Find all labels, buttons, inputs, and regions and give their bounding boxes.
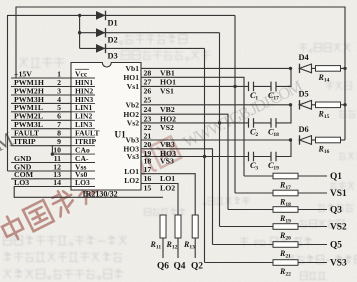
node +15V rail to R14 junction (343, 67, 346, 70)
label pin 20 VB3 (144, 140, 175, 149)
svg-text:HO2: HO2 (123, 110, 139, 119)
wire R20 to VS2 (298, 226, 327, 228)
wire pin 10 left (52, 146, 71, 155)
label inside name HO2 (123, 110, 139, 119)
svg-text:1: 1 (255, 96, 258, 102)
label pin 15 LO2 (144, 184, 176, 193)
wire D1 anode column (79, 15, 81, 48)
svg-text:15: 15 (324, 114, 330, 120)
wire D3 column down to R22 (204, 48, 206, 262)
label pin 1 inside name Vcc (72, 69, 96, 78)
svg-text:D6: D6 (299, 125, 309, 134)
svg-text:18: 18 (273, 132, 279, 138)
wire R17 to Q1 (298, 175, 327, 177)
label pin 16 LO1 (144, 174, 176, 183)
svg-text:16: 16 (144, 174, 152, 183)
svg-text:Vs1: Vs1 (127, 82, 139, 91)
node VB1-D4-C17 junction (289, 67, 292, 70)
resistor R13 (183, 215, 198, 251)
label pin 18 VS3 (144, 157, 174, 166)
wire ITRIP to pin10 riser (51, 146, 53, 154)
label inside name LO1 (124, 167, 139, 176)
capacitor C3 (249, 152, 259, 172)
wire LO3 pin14 wrap under IC to R11 (14, 187, 163, 198)
label inside name Vb1 (125, 64, 139, 73)
label inside name HO1 (123, 73, 139, 82)
wire R16 to +15V rail (341, 139, 346, 141)
label pin 6 inside name LIN2 (72, 112, 96, 121)
resistor R14 (316, 66, 341, 84)
svg-text:D5: D5 (299, 90, 309, 99)
svg-text:11: 11 (156, 245, 161, 251)
wire D2 column down to R20 (219, 33, 221, 227)
wire R22 to VS3 (298, 262, 327, 264)
svg-text:VS3: VS3 (330, 259, 347, 269)
node pin10 junction (51, 152, 54, 155)
capacitor C17 (268, 82, 279, 102)
svg-text:Q4: Q4 (174, 261, 186, 271)
svg-text:3: 3 (255, 166, 258, 172)
resistor R22 (273, 260, 298, 278)
node +15V rail to R15 junction (343, 103, 346, 106)
label pin 22 VS2 (144, 123, 174, 132)
label net VS2 (330, 223, 347, 233)
label pin 9 inside name ITRIP (72, 137, 97, 146)
wire VB1 pin28 to D4 node (141, 67, 291, 69)
node D1 anode junction (78, 14, 81, 17)
wire VS1 pin26 / bootstrap cap row 1 (141, 68, 291, 86)
label pin 27 HO1 (144, 78, 177, 87)
label pin 19 HO3 (144, 149, 177, 158)
label inside name Vs3 (127, 152, 139, 161)
svg-text:28: 28 (144, 69, 152, 78)
svg-text:20: 20 (144, 140, 152, 149)
label pin 11 inside name CA- (72, 154, 96, 163)
svg-text:LO3: LO3 (75, 178, 90, 187)
watermark WWW.TGB.JDJ.COM diagonal (180, 76, 306, 152)
svg-text:VB3: VB3 (160, 140, 175, 149)
wire pin 11 GND left (11, 154, 71, 163)
svg-text:16: 16 (324, 149, 330, 155)
label pin 3 inside name HIN2 (72, 86, 96, 95)
svg-text:U1: U1 (115, 130, 127, 140)
node VB3-D6-C19 junction (289, 138, 292, 141)
svg-text:Q3: Q3 (330, 206, 342, 216)
label net Q5 (330, 241, 342, 251)
wire R17 feed (244, 175, 273, 177)
svg-text:25: 25 (144, 96, 152, 105)
label pin 7 inside name LIN3 (72, 120, 96, 129)
label pin 12 inside name Vss (72, 162, 96, 171)
resistor R18 (273, 190, 298, 208)
resistor R20 (273, 224, 298, 242)
svg-text:21: 21 (285, 254, 291, 260)
node VS3 to D3 column junction (203, 155, 206, 158)
svg-text:LO1: LO1 (160, 174, 175, 183)
wire pin 8 FAULT left (11, 129, 71, 138)
label net VS3 (330, 259, 347, 269)
label inside name Vs1 (127, 82, 139, 91)
wire GND rail (pin12 up left side, across to VS1 column) (8, 15, 236, 171)
svg-text:D1: D1 (108, 18, 118, 27)
label pin 21 NC (144, 132, 152, 141)
svg-text:Q6: Q6 (157, 261, 169, 271)
svg-text:Vs2: Vs2 (127, 119, 139, 128)
node VB2-D5-C18 junction (289, 103, 292, 106)
label pin 8 inside name FAULT (72, 129, 100, 138)
resistor R21 (273, 242, 298, 260)
resistor R17 (273, 173, 298, 191)
resistor R19 (273, 207, 298, 225)
resistor R11 (150, 215, 167, 251)
wire LO2 pin15 to R12 column (141, 184, 178, 216)
wire VB3 pin20 to D6 node (141, 139, 291, 141)
label pin 10 inside name CAo (72, 146, 96, 155)
wire VS3 pin18 / bootstrap cap row 3 (141, 140, 291, 157)
label net Q6 (157, 261, 169, 271)
svg-text:17: 17 (273, 96, 279, 102)
svg-text:P: P (254, 239, 259, 248)
svg-text:20: 20 (285, 236, 291, 242)
wire pin 1 +15V left (11, 69, 71, 78)
svg-text:VS3: VS3 (160, 157, 174, 166)
svg-text:ITRIP: ITRIP (14, 137, 36, 146)
svg-text:VS2: VS2 (160, 123, 174, 132)
svg-text:HO1: HO1 (123, 73, 139, 82)
watermark zhongguo bujindianjiwang diagonal (0, 136, 181, 243)
svg-text:VS1: VS1 (330, 189, 347, 199)
diode D6 (299, 125, 312, 145)
wire pin 12 GND left (8, 162, 72, 171)
wire pin 7 PWM3L left (11, 120, 71, 129)
label pin 2 inside name HIN1 (72, 78, 96, 87)
label inside name HO3 (123, 144, 139, 153)
svg-text:D3: D3 (108, 51, 118, 60)
label pin 28 VB1 (144, 69, 175, 78)
label IR2130/32 (83, 190, 118, 199)
wire R12 to Q4 (177, 238, 179, 258)
svg-text:VS2: VS2 (330, 223, 347, 233)
svg-text:24: 24 (144, 105, 152, 114)
svg-text:23: 23 (144, 114, 152, 123)
wire R18 feed (235, 192, 273, 194)
wire D4 to R14 (312, 67, 316, 69)
svg-text:15: 15 (144, 184, 152, 193)
label pin 25 NC (144, 96, 152, 105)
svg-text:Vb1: Vb1 (125, 64, 139, 73)
wire R13 to Q2 (194, 238, 196, 258)
wire pin 9 ITRIP left (11, 137, 71, 146)
IC U1 IR2130/32 three-phase bridge driver body (71, 63, 141, 191)
label net Q4 (174, 261, 186, 271)
wire D1 column down to R18 (234, 15, 236, 193)
wire pin 5 PWM1L left (11, 103, 71, 112)
wire pin 4 PWM3H left (11, 95, 71, 104)
wire HO3 pin19 to R21 column (141, 149, 213, 245)
label net Q2 (191, 261, 203, 271)
wire R11 to Q6 (162, 238, 164, 258)
svg-text:2: 2 (255, 132, 258, 138)
svg-text:14: 14 (53, 178, 61, 187)
svg-text:Vb3: Vb3 (125, 136, 139, 145)
wire R15 to +15V rail (341, 104, 346, 106)
diode D5 (299, 90, 312, 110)
label pin 14 inside name LO3 (72, 178, 96, 187)
watermark clipped char at left edge (0, 128, 17, 162)
label pin 23 HO2 (144, 114, 177, 123)
svg-text:17: 17 (144, 165, 152, 174)
wire R14 to +15V rail (341, 67, 346, 69)
svg-text:22: 22 (285, 272, 291, 278)
diode D4 (299, 53, 312, 73)
label pin 17 NC (144, 165, 152, 174)
wire HO2 pin23 to R19 column (141, 114, 228, 209)
svg-text:LO2: LO2 (160, 184, 175, 193)
svg-text:VB1: VB1 (160, 69, 175, 78)
label inside name Vb3 (125, 136, 139, 145)
svg-text:LO2: LO2 (124, 176, 139, 185)
svg-text:LO3: LO3 (14, 178, 29, 187)
svg-text:Q1: Q1 (330, 172, 342, 182)
diode D2 (96, 28, 118, 45)
node VS2 to D2 column junction (218, 121, 221, 124)
wire pin 6 PWM2L left (11, 112, 71, 121)
wire R21 feed (213, 244, 274, 246)
wire R18 to VS1 (298, 192, 327, 194)
svg-text:D: D (260, 239, 266, 248)
wire HO1 pin27 to R17 column (141, 77, 244, 176)
label net Q1 (330, 172, 342, 182)
svg-text:14: 14 (324, 78, 330, 84)
label net Q3 (330, 206, 342, 216)
wire D3 row (80, 47, 205, 49)
svg-text:D2: D2 (108, 36, 118, 45)
svg-text:VS1: VS1 (160, 87, 174, 96)
label pin 5 inside name LIN1 (72, 103, 96, 112)
svg-text:Vs3: Vs3 (127, 152, 139, 161)
wire R19 to Q3 (298, 209, 327, 211)
wire D6 to R16 (312, 139, 316, 141)
wire pin 14 LO3 left (14, 178, 61, 187)
label inside name Vb2 (125, 100, 139, 109)
svg-text:Q2: Q2 (191, 261, 203, 271)
wire D5 to R15 (312, 104, 316, 106)
wire LO1 pin16 to R13 column (141, 174, 195, 215)
wire +15V rail top (pin1 up and across top to right rail) (16, 7, 345, 140)
svg-text:Q5: Q5 (330, 241, 342, 251)
svg-text:19: 19 (273, 166, 279, 172)
svg-text:LO1: LO1 (124, 167, 139, 176)
wire D2 row (80, 32, 220, 34)
wire R21 to Q5 (298, 244, 327, 246)
label inside name LO2 (124, 176, 139, 185)
node D2 anode junction (78, 31, 81, 34)
diode D3 (96, 44, 118, 61)
svg-text:12: 12 (172, 245, 178, 251)
svg-text:VB2: VB2 (160, 105, 175, 114)
resistor R12 (166, 215, 182, 251)
label inside name Vs2 (127, 119, 139, 128)
svg-text:13: 13 (189, 245, 195, 251)
wire VS2 pin22 / bootstrap cap row 2 (141, 105, 291, 123)
wire R20 feed (220, 226, 274, 228)
svg-text:27: 27 (144, 78, 152, 87)
node VS1 to D1 column junction (233, 85, 236, 88)
label pin 13 inside name Vs0 (72, 170, 96, 179)
wire pin 13 COM left (11, 170, 71, 179)
wire pin 2 PWM1H left (11, 78, 71, 87)
svg-text:26: 26 (144, 87, 152, 96)
svg-text:HO2: HO2 (160, 114, 176, 123)
label pin 4 inside name HIN3 (72, 95, 96, 104)
svg-text:D4: D4 (299, 53, 310, 62)
label pin 26 VS1 (144, 87, 174, 96)
capacitor C19 (268, 152, 279, 172)
wire VB2 pin24 to D5 node (141, 104, 291, 106)
wire pin 3 PWM2H left (11, 86, 71, 95)
wire R22 feed (205, 262, 274, 264)
svg-text:Vb2: Vb2 (125, 100, 139, 109)
svg-text:HO1: HO1 (160, 78, 176, 87)
capacitor C2 (249, 118, 259, 138)
resistor R15 (316, 102, 341, 120)
capacitor C1 (249, 82, 259, 102)
label net VS1 (330, 189, 347, 199)
capacitor C18 (268, 118, 279, 138)
diode D1 (96, 11, 118, 28)
resistor R16 (316, 137, 341, 155)
label pin 24 VB2 (144, 105, 175, 114)
wire R19 feed (228, 209, 273, 211)
